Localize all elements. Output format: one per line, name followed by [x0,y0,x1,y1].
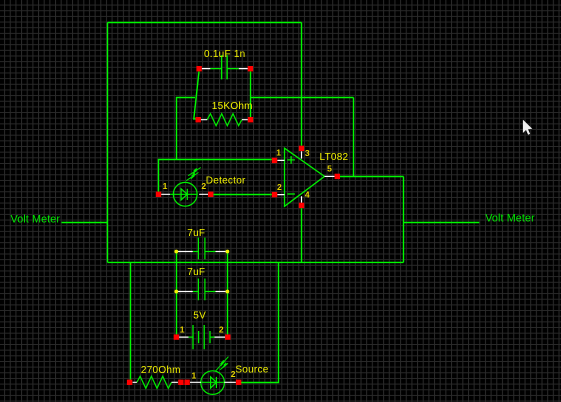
pin resistor R1 left [196,117,201,122]
wire volt meter left [62,222,108,224]
wire noninverting input [159,160,272,192]
pin led 2 [236,380,241,385]
wire resistor right up [250,98,252,118]
svg-text:2: 2 [201,181,206,191]
svg-text:Detector: Detector [206,176,246,187]
svg-text:1: 1 [163,181,168,191]
pin op-amp 3 [299,146,304,151]
pin resistor R2 right [178,380,183,385]
capacitor C2 7uF body [193,238,216,260]
capacitor C3 7uF body [193,279,216,301]
led Source body [201,371,225,395]
wire volt meter right [404,222,480,224]
svg-text:2: 2 [231,369,236,379]
mouse cursor [523,120,532,135]
wire op-amp pin4 down [301,208,303,262]
pin op-amp 1 [272,158,277,163]
battery B1 5V body [189,325,215,349]
pin battery 2 [225,334,230,339]
wire feedback right horizontal [251,97,354,99]
resistor R2 pin stubs [133,381,178,383]
pin photodiode 1 [156,192,161,197]
wire inverting input [213,194,272,196]
pin op-amp 5 [335,174,340,179]
wire to 270ohm [130,262,132,379]
wire slant cap to resistor [194,72,199,119]
wire cap battery column right [227,252,229,335]
svg-text:Source: Source [235,365,268,376]
resistor R1 pin stubs [201,119,248,121]
svg-text:2: 2 [277,182,282,192]
wire cap battery column left [176,252,178,335]
pin capacitor C1 left [196,66,201,71]
capacitor C1 0.1uF body [210,55,239,79]
wire led to bus [241,262,279,382]
wire op-amp pin3 vertical [301,23,303,146]
photodiode Detector light arrows [186,168,201,181]
svg-text:3: 3 [305,148,310,158]
wire left vertical [107,23,109,263]
junction node bottom left [174,290,178,294]
resistor R1 15KOhm body [207,114,242,126]
svg-text:7uF: 7uF [187,267,205,278]
capacitor C2 pin stubs [178,251,226,253]
svg-text:4: 4 [305,190,310,200]
svg-text:5V: 5V [193,311,206,322]
pin battery 1 [174,334,179,339]
junction node top right [226,250,230,254]
svg-text:0.1uF 1n: 0.1uF 1n [204,49,245,60]
photodiode Detector pin stubs [161,193,208,195]
pin capacitor C1 right [248,66,253,71]
svg-text:1: 1 [192,370,197,380]
wire feedback to output [353,98,355,177]
svg-text:1: 1 [276,148,281,158]
svg-text:270Ohm: 270Ohm [141,365,181,376]
op-amp U1 pin stubs [277,151,334,203]
pin resistor R2 left [127,380,132,385]
svg-text:Volt Meter: Volt Meter [11,213,61,225]
pin resistor R1 right [248,117,253,122]
wire op-amp output [340,176,404,178]
pin op-amp 2 [272,192,277,197]
photodiode Detector body [170,182,197,206]
wire top feedback rail [108,22,302,24]
svg-text:7uF: 7uF [187,228,205,239]
capacitor C1 pin stubs [202,68,248,70]
junction node top left [174,250,178,254]
wire output down [403,177,405,263]
capacitor C3 pin stubs [178,291,226,293]
resistor R2 270Ohm body [137,376,172,388]
junction node bottom right [226,290,230,294]
battery B1 pin stubs [179,336,225,338]
wire cap right down [250,71,252,97]
wire bottom bus [108,261,404,263]
svg-text:15KOhm: 15KOhm [212,101,253,112]
wire feedback left branch [177,98,196,160]
pin led 1 [184,380,189,385]
svg-text:2: 2 [219,325,224,335]
op-amp U1 triangle [285,148,325,206]
led Source light arrows [216,357,229,371]
svg-text:LT082: LT082 [320,152,349,163]
svg-text:Volt Meter: Volt Meter [485,213,535,225]
pin photodiode 2 [208,192,213,197]
led Source pin stubs [190,381,236,383]
pin op-amp 4 [299,203,304,208]
svg-text:1: 1 [180,325,185,335]
svg-text:5: 5 [327,164,332,174]
